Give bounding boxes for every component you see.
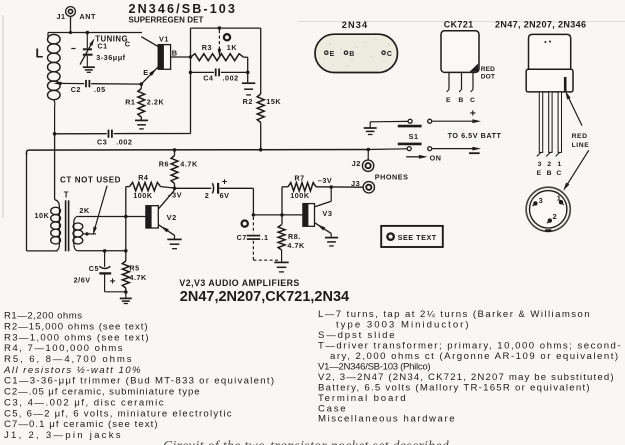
svg-text:R1—2,200 ohms: R1—2,200 ohms xyxy=(4,311,83,322)
svg-text:J2: J2 xyxy=(352,159,361,168)
package outline 2N47 can xyxy=(529,34,571,69)
ground (R1) xyxy=(135,119,148,121)
svg-text:B: B xyxy=(458,97,463,104)
capacitor C7 0.1 xyxy=(247,235,260,237)
wire J1 to tank top xyxy=(70,17,72,33)
svg-text:ary, 2,000 ohms ct (Argonne AR: ary, 2,000 ohms ct (Argonne AR-109 or eq… xyxy=(330,351,620,362)
ground (C5/R5) xyxy=(120,297,132,299)
wire collector V1 xyxy=(141,37,158,47)
svg-text:C3, 4—.002 μf, disc ceramic: C3, 4—.002 μf, disc ceramic xyxy=(4,397,165,408)
wire V2 collector to C6 xyxy=(175,187,212,189)
svg-text:CT NOT USED: CT NOT USED xyxy=(60,176,121,185)
wire V2 collector lead xyxy=(159,190,175,209)
lead 2/B (2N47) xyxy=(549,92,552,152)
svg-text:R3—1,000 ohms (see text): R3—1,000 ohms (see text) xyxy=(4,332,150,343)
lead E (CK721) xyxy=(448,72,450,89)
capacitor C6 2uf 6V xyxy=(212,183,213,193)
resistor R8 4.7K xyxy=(278,225,285,250)
legend box SEE TEXT xyxy=(381,226,443,247)
svg-text:4.7K: 4.7K xyxy=(287,241,305,250)
svg-text:Miscellaneous hardware: Miscellaneous hardware xyxy=(318,414,456,425)
wire emitter V1 xyxy=(141,67,158,85)
node C1 top xyxy=(86,31,90,35)
svg-text:B: B xyxy=(547,170,552,177)
jack J3 xyxy=(363,182,374,193)
svg-text:2: 2 xyxy=(553,212,558,221)
wire bus left leg xyxy=(26,153,28,251)
pin C (2N34) xyxy=(382,51,385,54)
svg-text:PHONES: PHONES xyxy=(375,172,409,181)
svg-text:C2: C2 xyxy=(71,85,81,94)
wire R7 left leg xyxy=(281,187,283,225)
wire battery bus xyxy=(27,150,369,156)
svg-text:L—7 turns, tap at 2¼ turns (Ba: L—7 turns, tap at 2¼ turns (Barker & Wil… xyxy=(318,309,591,320)
jack J2 xyxy=(362,160,373,171)
wire elbow to V3 base xyxy=(253,214,303,216)
center tap stub xyxy=(83,233,96,235)
lead C (CK721) xyxy=(472,72,474,89)
svg-text:C2—.05 μf ceramic, subminiatur: C2—.05 μf ceramic, subminiature type xyxy=(4,387,200,398)
wire R3 right down xyxy=(247,57,249,72)
wire C7 dashed top xyxy=(252,217,254,234)
wire V3 collector leg xyxy=(330,187,332,201)
svg-text:2/6V: 2/6V xyxy=(74,275,91,284)
package outline CK721 xyxy=(441,31,479,73)
arrow ON xyxy=(406,156,420,158)
svg-text:1K: 1K xyxy=(227,43,238,52)
svg-text:.002: .002 xyxy=(116,137,132,146)
svg-text:T—driver transformer; primary,: T—driver transformer; primary, 10,000 oh… xyxy=(318,341,622,352)
wire secondary to V2 base xyxy=(76,216,146,218)
wire R3 wiper (dashed) xyxy=(218,30,220,51)
switch S1 upper pole xyxy=(408,119,412,123)
svg-text:E: E xyxy=(537,170,542,177)
svg-text:S—dpst slide: S—dpst slide xyxy=(318,330,396,341)
wire to common ground xyxy=(125,292,127,298)
svg-text:R5, 6, 8—4,700 ohms: R5, 6, 8—4,700 ohms xyxy=(4,354,133,365)
potentiometer R3 1K xyxy=(191,54,244,61)
ground (C1) xyxy=(83,66,95,68)
trimmer capacitor C1 3-36uuf xyxy=(86,33,88,49)
svg-text:SEE TEXT: SEE TEXT xyxy=(398,233,437,242)
arrow CT xyxy=(95,186,107,229)
wire R3 top rail xyxy=(191,27,261,29)
wire C6 to V3 base elbow xyxy=(220,187,254,189)
transistor V2 body xyxy=(146,206,158,228)
svg-text:E: E xyxy=(143,68,148,77)
transistor V1 body xyxy=(158,45,170,70)
svg-text:CK721: CK721 xyxy=(444,19,474,29)
ground (R8) xyxy=(274,261,288,263)
arrow to red line marker xyxy=(568,97,582,125)
svg-text:R4: R4 xyxy=(138,173,148,182)
capacitor C5 2uf/6V xyxy=(104,251,106,267)
svg-text:C: C xyxy=(125,39,131,48)
svg-text:C: C xyxy=(470,97,475,104)
svg-text:E: E xyxy=(330,51,335,58)
svg-text:DOT: DOT xyxy=(481,74,495,81)
svg-text:RED: RED xyxy=(481,66,495,73)
svg-text:ON: ON xyxy=(430,153,442,162)
node base/R4 leg xyxy=(124,215,128,219)
wire V1 base xyxy=(171,56,191,58)
svg-text:Terminal board: Terminal board xyxy=(318,393,407,404)
svg-text:V2: V2 xyxy=(167,213,177,222)
ground (C4) xyxy=(242,82,255,84)
svg-text:1: 1 xyxy=(557,161,561,168)
svg-text:C1—3-36-μμf trimmer (Bud MT-83: C1—3-36-μμf trimmer (Bud MT-833 or equiv… xyxy=(4,376,275,387)
coil L (7 turns) xyxy=(47,33,49,37)
package 2N34 surface speckle xyxy=(329,43,331,45)
wire S1 lower to battery - xyxy=(432,148,473,150)
svg-text:+: + xyxy=(222,176,228,187)
wire secondary bottom rail xyxy=(77,250,126,252)
red dot marker (CK721) xyxy=(470,64,479,72)
svg-text:C5, 6—2 μf, 6 volts, miniature: C5, 6—2 μf, 6 volts, miniature electroly… xyxy=(4,408,233,419)
resistor R1 2.2K xyxy=(140,84,142,88)
svg-text:15K: 15K xyxy=(266,97,281,106)
svg-text:LINE: LINE xyxy=(572,142,590,149)
socket pin 2 xyxy=(548,218,552,222)
wire R8 to ground xyxy=(281,260,283,262)
svg-text:C4: C4 xyxy=(203,74,213,83)
wire ground to S1 upper xyxy=(370,120,407,122)
capacitor C4 .002 xyxy=(191,71,215,73)
wire coil tap to C2 xyxy=(58,82,85,84)
page scan line (top right) xyxy=(298,21,625,23)
lead 1/C (2N47) xyxy=(558,92,561,152)
wire V3 collector lead xyxy=(315,201,331,207)
svg-text:100K: 100K xyxy=(290,191,310,200)
transformer T core xyxy=(65,200,67,251)
can top dots xyxy=(544,41,546,43)
svg-text:2N47,2N207,CK721,2N34: 2N47,2N207,CK721,2N34 xyxy=(180,289,349,305)
svg-text:+: + xyxy=(110,277,116,288)
svg-text:C1: C1 xyxy=(97,42,107,51)
svg-text:T: T xyxy=(64,191,69,200)
svg-text:TO 6.5V BATT: TO 6.5V BATT xyxy=(448,131,502,140)
resistor R5 4.7K xyxy=(125,251,127,261)
svg-text:3-36μμf: 3-36μμf xyxy=(96,53,125,62)
wire base vertical bus xyxy=(190,28,192,133)
svg-text:ANT: ANT xyxy=(80,12,96,21)
node C4 left xyxy=(189,71,193,75)
svg-text:C5: C5 xyxy=(89,264,99,273)
transformer T primary (10K) xyxy=(55,200,60,208)
wire C5/R5 join xyxy=(105,291,126,293)
svg-text:Battery, 6.5 volts (Mallory TR: Battery, 6.5 volts (Mallory TR-165R or e… xyxy=(318,382,591,393)
transformer T secondary (2K) xyxy=(74,217,76,223)
svg-text:R2—15,000 ohms (see text): R2—15,000 ohms (see text) xyxy=(4,321,149,332)
svg-text:V1: V1 xyxy=(159,34,169,43)
svg-text:R6: R6 xyxy=(159,159,169,168)
svg-text:V1—2N346/SB-103 (Philco): V1—2N346/SB-103 (Philco) xyxy=(318,361,430,372)
arrow to socket view xyxy=(567,150,589,185)
node R6 top xyxy=(173,148,177,152)
svg-text:C: C xyxy=(387,51,393,58)
svg-text:V2, 3—2N47 (2N34, CK721, 2N207: V2, 3—2N47 (2N34, CK721, 2N207 may be su… xyxy=(318,372,615,383)
capacitor C2 .05 xyxy=(85,80,87,87)
svg-text:R3: R3 xyxy=(202,43,212,52)
svg-text:3: 3 xyxy=(538,161,542,168)
svg-text:C7—0.1 μf ceramic (see text): C7—0.1 μf ceramic (see text) xyxy=(4,419,159,430)
node C4 right xyxy=(246,71,250,75)
wire R4 left leg xyxy=(125,187,127,251)
svg-text:S1: S1 xyxy=(409,132,419,141)
wire L/C3 node to primary xyxy=(54,134,56,200)
see-text marker (R3) xyxy=(224,34,230,40)
see-text marker (C7) xyxy=(242,221,248,227)
svg-text:J1: J1 xyxy=(57,12,66,21)
svg-text:.002: .002 xyxy=(223,74,239,83)
pin B (2N34) xyxy=(344,51,347,54)
lead 3/E (2N47) xyxy=(539,92,542,152)
jack J1 (ANT) xyxy=(66,7,76,17)
wire C4 to ground xyxy=(247,72,249,82)
ground (switch) xyxy=(369,122,371,128)
svg-text:4.7K: 4.7K xyxy=(129,273,147,282)
wire tank top rail xyxy=(48,32,142,34)
switch S1 lower pole xyxy=(398,143,422,146)
svg-text:E: E xyxy=(446,97,451,104)
label - (battery) xyxy=(469,152,480,154)
svg-text:V2,V3 AUDIO AMPLIFIERS: V2,V3 AUDIO AMPLIFIERS xyxy=(179,278,299,288)
svg-text:L: L xyxy=(36,47,44,61)
svg-text:2K: 2K xyxy=(79,206,90,215)
node J1/tank xyxy=(69,31,72,34)
resistor R4 100K xyxy=(126,186,130,188)
svg-text:C3: C3 xyxy=(97,137,107,146)
ground (V2 emitter) xyxy=(167,238,181,240)
ground (V3 emitter) xyxy=(325,237,338,239)
svg-text:R7: R7 xyxy=(294,174,304,183)
red line marker (2N47) xyxy=(564,77,567,91)
svg-text:2N346/SB-103: 2N346/SB-103 xyxy=(129,2,238,16)
socket index notch xyxy=(545,229,551,232)
resistor R6 4.7K xyxy=(174,150,176,156)
svg-text:C: C xyxy=(556,170,561,177)
page scan edge line (left) xyxy=(2,15,4,218)
node V2 collector xyxy=(173,187,177,191)
node C3 left / L bottom xyxy=(53,132,57,136)
svg-text:.1: .1 xyxy=(261,233,268,242)
svg-text:SUPERREGEN DET: SUPERREGEN DET xyxy=(129,15,204,24)
svg-text:R4, 7—100,000 ohms: R4, 7—100,000 ohms xyxy=(4,343,124,354)
coil tap arrow (to C2) xyxy=(53,82,61,86)
capacitor C3 .002 xyxy=(55,133,107,135)
wire C7 dashed bottom xyxy=(252,241,254,260)
socket pin 3 xyxy=(533,201,537,205)
node switch/J2 xyxy=(367,148,371,152)
wire C2 to node E xyxy=(91,83,141,85)
node R2 bottom xyxy=(259,148,263,152)
svg-text:R8.: R8. xyxy=(288,232,301,241)
svg-text:4.7K: 4.7K xyxy=(180,159,198,168)
svg-text:2: 2 xyxy=(205,191,210,200)
svg-text:Circuit of the two-transistor: Circuit of the two-transistor pocket set… xyxy=(163,438,449,445)
svg-text:–3V: –3V xyxy=(318,176,332,185)
wire bus to S1 lower xyxy=(368,148,407,151)
svg-text:J1, 2, 3—pin jacks: J1, 2, 3—pin jacks xyxy=(4,430,123,441)
node C7 tap xyxy=(252,213,256,217)
wire V2 emitter lead xyxy=(159,225,175,236)
svg-text:B: B xyxy=(349,51,355,58)
wire S1 upper to battery + xyxy=(432,120,473,122)
svg-text:V3: V3 xyxy=(322,209,332,218)
svg-text:Case: Case xyxy=(318,403,347,414)
svg-text:2N47, 2N207, 2N346: 2N47, 2N207, 2N346 xyxy=(495,19,586,29)
svg-text:R2: R2 xyxy=(243,97,253,106)
resistor R2 15K xyxy=(257,94,264,123)
node C5 top xyxy=(103,249,107,253)
wire bus to J2 xyxy=(367,150,369,160)
socket pin 1 xyxy=(559,200,563,204)
node E/R1/C2 xyxy=(140,82,144,86)
svg-text:2: 2 xyxy=(547,161,551,168)
svg-text:B: B xyxy=(172,48,178,57)
node R3 left / V1 base xyxy=(189,55,193,59)
svg-text:R1: R1 xyxy=(125,97,135,106)
svg-text:RED: RED xyxy=(572,133,588,140)
svg-text:R5: R5 xyxy=(129,264,139,273)
svg-text:10K: 10K xyxy=(35,211,50,220)
lead B (CK721) xyxy=(461,72,463,89)
svg-text:+: + xyxy=(470,108,476,120)
svg-text:3: 3 xyxy=(539,196,544,205)
svg-text:J3: J3 xyxy=(351,179,360,188)
svg-text:2N34: 2N34 xyxy=(342,20,368,30)
transistor V3 body xyxy=(303,204,315,227)
svg-text:type 3003 Miniductor): type 3003 Miniductor) xyxy=(336,320,471,331)
package outline 2N34 xyxy=(315,34,398,72)
svg-text:1: 1 xyxy=(557,194,562,203)
svg-text:2.2K: 2.2K xyxy=(147,98,165,107)
svg-text:All resistors ½-watt 10%: All resistors ½-watt 10% xyxy=(3,365,142,376)
wire rail to R2 xyxy=(260,28,262,94)
node R7 leg / base xyxy=(280,213,284,217)
pin E (2N34) xyxy=(325,51,328,54)
node wiper top xyxy=(218,26,222,30)
svg-text:6V: 6V xyxy=(220,191,230,200)
resistor R7 100K xyxy=(282,186,288,188)
svg-text:.05: .05 xyxy=(94,85,106,94)
svg-text:C7: C7 xyxy=(237,233,247,242)
node V3 collector line xyxy=(329,185,333,189)
socket outline (bottom view) xyxy=(526,187,570,231)
node R5 top xyxy=(124,249,128,253)
wire V3 emitter lead xyxy=(315,223,331,234)
svg-text:100K: 100K xyxy=(133,191,153,200)
